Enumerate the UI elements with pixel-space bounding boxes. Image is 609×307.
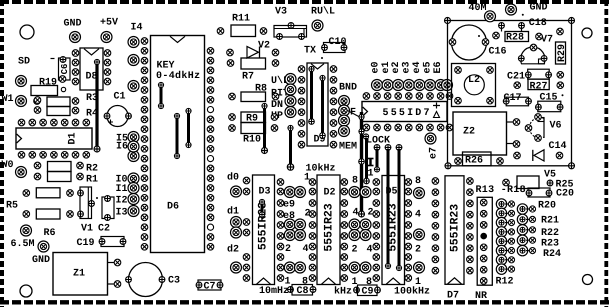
resistor R18 <box>517 176 539 189</box>
pad I6 <box>128 141 139 152</box>
mounting hole top-left <box>20 25 34 39</box>
trace from F pad <box>348 111 362 119</box>
svg-text:555IR23: 555IR23 <box>386 203 399 251</box>
svg-text:d0: d0 <box>227 172 239 184</box>
capacitor C3 <box>129 263 163 297</box>
IC D8 <box>80 48 103 90</box>
svg-text:R20: R20 <box>538 201 556 212</box>
capacitor C8 <box>292 285 313 296</box>
D3 left pads <box>243 177 250 184</box>
shield box outline <box>448 21 572 166</box>
resistor R26 <box>463 152 492 166</box>
D8 left pins <box>72 50 79 57</box>
pads between D2 and D5 <box>349 187 360 198</box>
mounting hole bottom-left <box>20 285 32 297</box>
svg-text:4: 4 <box>353 208 359 219</box>
pad I1 <box>128 183 139 194</box>
capacitor C10 <box>324 43 346 53</box>
pad I3 <box>128 206 139 217</box>
svg-text:2: 2 <box>352 245 358 256</box>
svg-text:I1: I1 <box>116 184 128 195</box>
capacitor C16 <box>452 25 487 60</box>
svg-text:BND: BND <box>339 83 357 94</box>
small hole <box>61 87 65 91</box>
pad 6.5M <box>38 241 49 252</box>
resistor R8 <box>241 92 266 102</box>
resistor R11 <box>231 25 256 37</box>
svg-text:D1: D1 <box>67 132 78 144</box>
svg-text:C8: C8 <box>297 286 309 297</box>
svg-text:R19: R19 <box>39 78 57 89</box>
svg-text:4: 4 <box>303 244 309 255</box>
D8 right pins <box>104 50 111 57</box>
resistor R7 <box>241 58 266 69</box>
svg-text:RU\L: RU\L <box>311 6 335 18</box>
capacitor C6 <box>59 58 71 80</box>
svg-text:W1: W1 <box>2 94 14 105</box>
mounting hole bottom-right <box>583 275 593 285</box>
svg-text:e7: e7 <box>428 147 439 159</box>
pads between D5 and D7 <box>414 188 425 199</box>
svg-text:V3: V3 <box>275 7 287 18</box>
IC D5 <box>382 176 405 285</box>
pad e7 <box>425 133 436 144</box>
svg-text:8: 8 <box>415 176 421 187</box>
svg-text:KEY: KEY <box>157 61 175 72</box>
svg-text:R23: R23 <box>541 239 559 250</box>
resistor R29 <box>556 42 566 64</box>
diode V2 <box>247 47 259 59</box>
svg-text:6.5M: 6.5M <box>11 239 35 250</box>
svg-text:d1: d1 <box>227 206 239 218</box>
svg-text:e4: e4 <box>412 61 423 73</box>
pad row below D1 <box>18 152 25 159</box>
D9 right pins <box>330 66 337 73</box>
wire down to pad near d0 <box>289 128 292 167</box>
pad W0 <box>16 167 27 178</box>
resistor R28 <box>505 32 529 42</box>
svg-text:R7: R7 <box>242 72 254 83</box>
vertical wire left of LOCK <box>360 112 363 214</box>
svg-text:4: 4 <box>367 245 373 256</box>
board outline dashed border bottom <box>0 300 609 304</box>
capacitor C7 <box>198 280 221 290</box>
resistor R4 <box>47 107 70 116</box>
svg-text:C6: C6 <box>60 64 70 75</box>
capacitor C9 <box>358 285 378 296</box>
pad RU\L <box>312 20 323 31</box>
capacitor C2 <box>102 197 114 219</box>
svg-text:2: 2 <box>285 244 291 255</box>
pad +5V <box>101 32 112 43</box>
svg-text:R28: R28 <box>506 33 524 44</box>
svg-text:R13 -R18: R13 -R18 <box>476 185 526 196</box>
svg-text:C18: C18 <box>529 18 547 29</box>
pad R3 right <box>72 98 79 105</box>
svg-text:R1: R1 <box>86 175 98 186</box>
svg-text:L2: L2 <box>468 75 480 86</box>
pad 40M <box>485 11 496 22</box>
svg-text:555IR23: 555IR23 <box>448 204 461 252</box>
svg-text:1: 1 <box>352 277 358 288</box>
pads BND/F/MEM column <box>339 96 350 107</box>
svg-text:e8: e8 <box>283 211 295 222</box>
IC D9 <box>307 63 328 146</box>
svg-text:C7: C7 <box>204 282 216 293</box>
svg-text:I4: I4 <box>131 23 143 34</box>
IC D7 <box>445 176 464 284</box>
pad I5 <box>128 132 139 143</box>
pad C1 left <box>104 113 110 119</box>
svg-text:TX: TX <box>304 46 316 57</box>
svg-text:R27: R27 <box>530 82 548 93</box>
transistor V7 <box>521 47 545 64</box>
D3 right pin column <box>277 179 284 186</box>
svg-text:2: 2 <box>305 209 311 220</box>
pad C1 right <box>126 113 132 119</box>
capacitor C19 <box>101 237 124 247</box>
jumper in D3 <box>261 202 264 215</box>
capacitor C15 <box>538 101 561 112</box>
pad R6 <box>21 225 32 236</box>
pad SD / W1-1 <box>16 76 27 87</box>
svg-text:NR: NR <box>475 291 487 302</box>
svg-text:MEM: MEM <box>339 142 357 153</box>
resistor R9 <box>241 112 266 123</box>
pad R4 left <box>34 107 41 114</box>
svg-text:+5V: +5V <box>100 18 118 29</box>
connector NR <box>477 197 492 285</box>
svg-text:I3: I3 <box>116 208 128 219</box>
D5 right pin column <box>405 179 412 186</box>
svg-text:100kHz: 100kHz <box>394 286 430 298</box>
D6 connector pads column <box>128 55 139 66</box>
svg-text:R24: R24 <box>543 249 561 260</box>
D2 left pin column <box>309 179 316 186</box>
transistor V6 <box>530 118 544 138</box>
IC D1 <box>16 128 92 149</box>
svg-text:R2: R2 <box>86 164 98 175</box>
svg-text:C1: C1 <box>114 92 126 103</box>
svg-text:C16: C16 <box>489 47 507 58</box>
svg-text:555IR23: 555IR23 <box>322 203 335 251</box>
pad W1 <box>16 96 27 107</box>
svg-text:R26: R26 <box>465 156 483 167</box>
pad column right of D7 <box>467 178 474 185</box>
svg-text:C9: C9 <box>362 287 374 298</box>
column left of D7 <box>432 178 439 185</box>
svg-text:I6: I6 <box>116 142 128 153</box>
pad I0 <box>128 173 139 184</box>
svg-text:R29: R29 <box>557 44 568 62</box>
capacitor C17 <box>506 97 528 106</box>
resistor R3 <box>47 97 70 107</box>
svg-text:e1: e1 <box>381 61 392 73</box>
svg-text:V5: V5 <box>544 170 556 181</box>
svg-text:10mHz: 10mHz <box>259 286 289 297</box>
svg-text:R3: R3 <box>86 93 98 104</box>
svg-text:R10: R10 <box>243 135 261 146</box>
board outline dashed border left <box>0 0 4 307</box>
svg-text:C3: C3 <box>168 276 180 287</box>
svg-text:e0: e0 <box>370 61 381 73</box>
pad row e0-E6 <box>372 80 383 91</box>
resistor R19 <box>31 86 58 96</box>
svg-text:kHz: kHz <box>334 286 352 298</box>
diode V5 <box>534 150 544 161</box>
svg-text:D6: D6 <box>167 202 179 213</box>
pad <box>34 98 41 105</box>
board outline dashed border top <box>0 0 609 4</box>
svg-text:W0: W0 <box>2 160 14 171</box>
svg-text:e3: e3 <box>402 61 413 73</box>
svg-text:555ID7: 555ID7 <box>383 108 432 119</box>
pad I2 <box>128 194 139 205</box>
svg-text:R11: R11 <box>232 14 250 25</box>
board outline dashed border right <box>604 0 608 307</box>
jumper H near LOCK <box>369 159 371 166</box>
pad R4 right <box>72 107 79 114</box>
svg-text:4: 4 <box>415 210 421 221</box>
svg-text:V1: V1 <box>81 224 93 235</box>
D9 left pins <box>298 66 305 73</box>
svg-text:R22: R22 <box>541 228 559 239</box>
IC D3 <box>253 175 275 285</box>
D6 right pins <box>207 48 214 55</box>
svg-text:C2: C2 <box>98 224 110 235</box>
svg-text:D5: D5 <box>386 187 398 198</box>
D2 right pin column <box>341 179 348 186</box>
svg-text:GND: GND <box>32 255 50 266</box>
svg-text:2: 2 <box>415 245 421 256</box>
transistor V3 <box>274 26 307 38</box>
svg-text:D2: D2 <box>324 188 336 199</box>
inductor L2 <box>452 64 496 107</box>
svg-text:R5: R5 <box>6 201 18 212</box>
pads R20-R24 left column <box>496 199 506 209</box>
resistor R1 <box>48 172 72 182</box>
pads between D3 and D2 <box>284 187 295 198</box>
D6 left pins <box>141 38 148 45</box>
pad row above D1 <box>18 119 25 126</box>
resistor R27 <box>528 79 549 90</box>
svg-text:8: 8 <box>352 176 358 187</box>
svg-text:40M: 40M <box>469 3 487 14</box>
svg-text:C20: C20 <box>556 189 574 200</box>
svg-text:I2: I2 <box>116 196 128 207</box>
IC D6 <box>151 36 205 253</box>
svg-text:1: 1 <box>368 169 374 180</box>
D9 jumper wires <box>310 69 313 122</box>
LOCK wires down <box>374 145 380 151</box>
pads R20-R24 right column <box>517 204 527 214</box>
svg-text:E6: E6 <box>433 61 444 73</box>
resistor R5b <box>36 209 60 219</box>
mounting hole top-right <box>582 28 592 38</box>
svg-text:V6: V6 <box>550 121 562 132</box>
svg-text:C14: C14 <box>549 141 567 152</box>
svg-text:d2: d2 <box>227 244 239 256</box>
C1 polarity + <box>108 120 113 125</box>
resistor R5a <box>36 188 60 198</box>
pad R3 left <box>34 97 41 104</box>
IC D2 <box>317 175 340 285</box>
svg-text:R12: R12 <box>496 277 514 288</box>
svg-text:R6: R6 <box>44 228 56 239</box>
svg-text:10kHz: 10kHz <box>306 163 336 175</box>
wire right of R9/R10 <box>263 106 266 151</box>
svg-text:Z1: Z1 <box>73 269 85 280</box>
svg-text:GND: GND <box>64 19 82 30</box>
small pad row above IC <box>363 93 370 100</box>
pad <box>506 4 517 15</box>
resistor R10 <box>241 123 266 134</box>
capacitor C20 body <box>528 188 550 197</box>
svg-text:C19: C19 <box>77 238 95 249</box>
pad on section box edge <box>442 80 453 91</box>
svg-text:e2: e2 <box>391 61 402 73</box>
crystal Z2 <box>453 112 507 155</box>
trimmer symbol <box>433 103 440 109</box>
svg-text:2: 2 <box>368 208 374 219</box>
pad GND <box>70 32 81 43</box>
IC 555ID7 <box>362 102 447 122</box>
svg-text:e5: e5 <box>422 61 433 73</box>
pad LOCK <box>363 134 368 139</box>
svg-text:Z2: Z2 <box>463 127 475 138</box>
svg-text:D7: D7 <box>447 291 459 302</box>
capacitor C21 <box>528 69 550 79</box>
crystal Z1 <box>53 253 108 296</box>
svg-text:R4: R4 <box>86 109 98 120</box>
capacitor C1 body <box>107 106 128 127</box>
D5 left pin column <box>373 179 380 186</box>
transistor V1 <box>80 187 92 219</box>
jumper wires inside D6 <box>160 85 163 106</box>
svg-text:R21: R21 <box>541 216 559 227</box>
svg-text:C21: C21 <box>507 72 525 83</box>
svg-text:C15: C15 <box>540 93 558 104</box>
pad I4 <box>128 37 139 48</box>
svg-text:GND: GND <box>530 3 548 14</box>
svg-text:DN: DN <box>271 100 283 111</box>
svg-text:0-4dkHz: 0-4dkHz <box>156 70 200 82</box>
svg-text:e9: e9 <box>283 200 295 211</box>
wire from D8 down to D1 <box>95 62 98 149</box>
resistor R2 <box>48 162 72 172</box>
svg-text:SD: SD <box>18 57 30 68</box>
small pad row below IC <box>363 124 370 131</box>
svg-text:D3: D3 <box>259 187 271 198</box>
